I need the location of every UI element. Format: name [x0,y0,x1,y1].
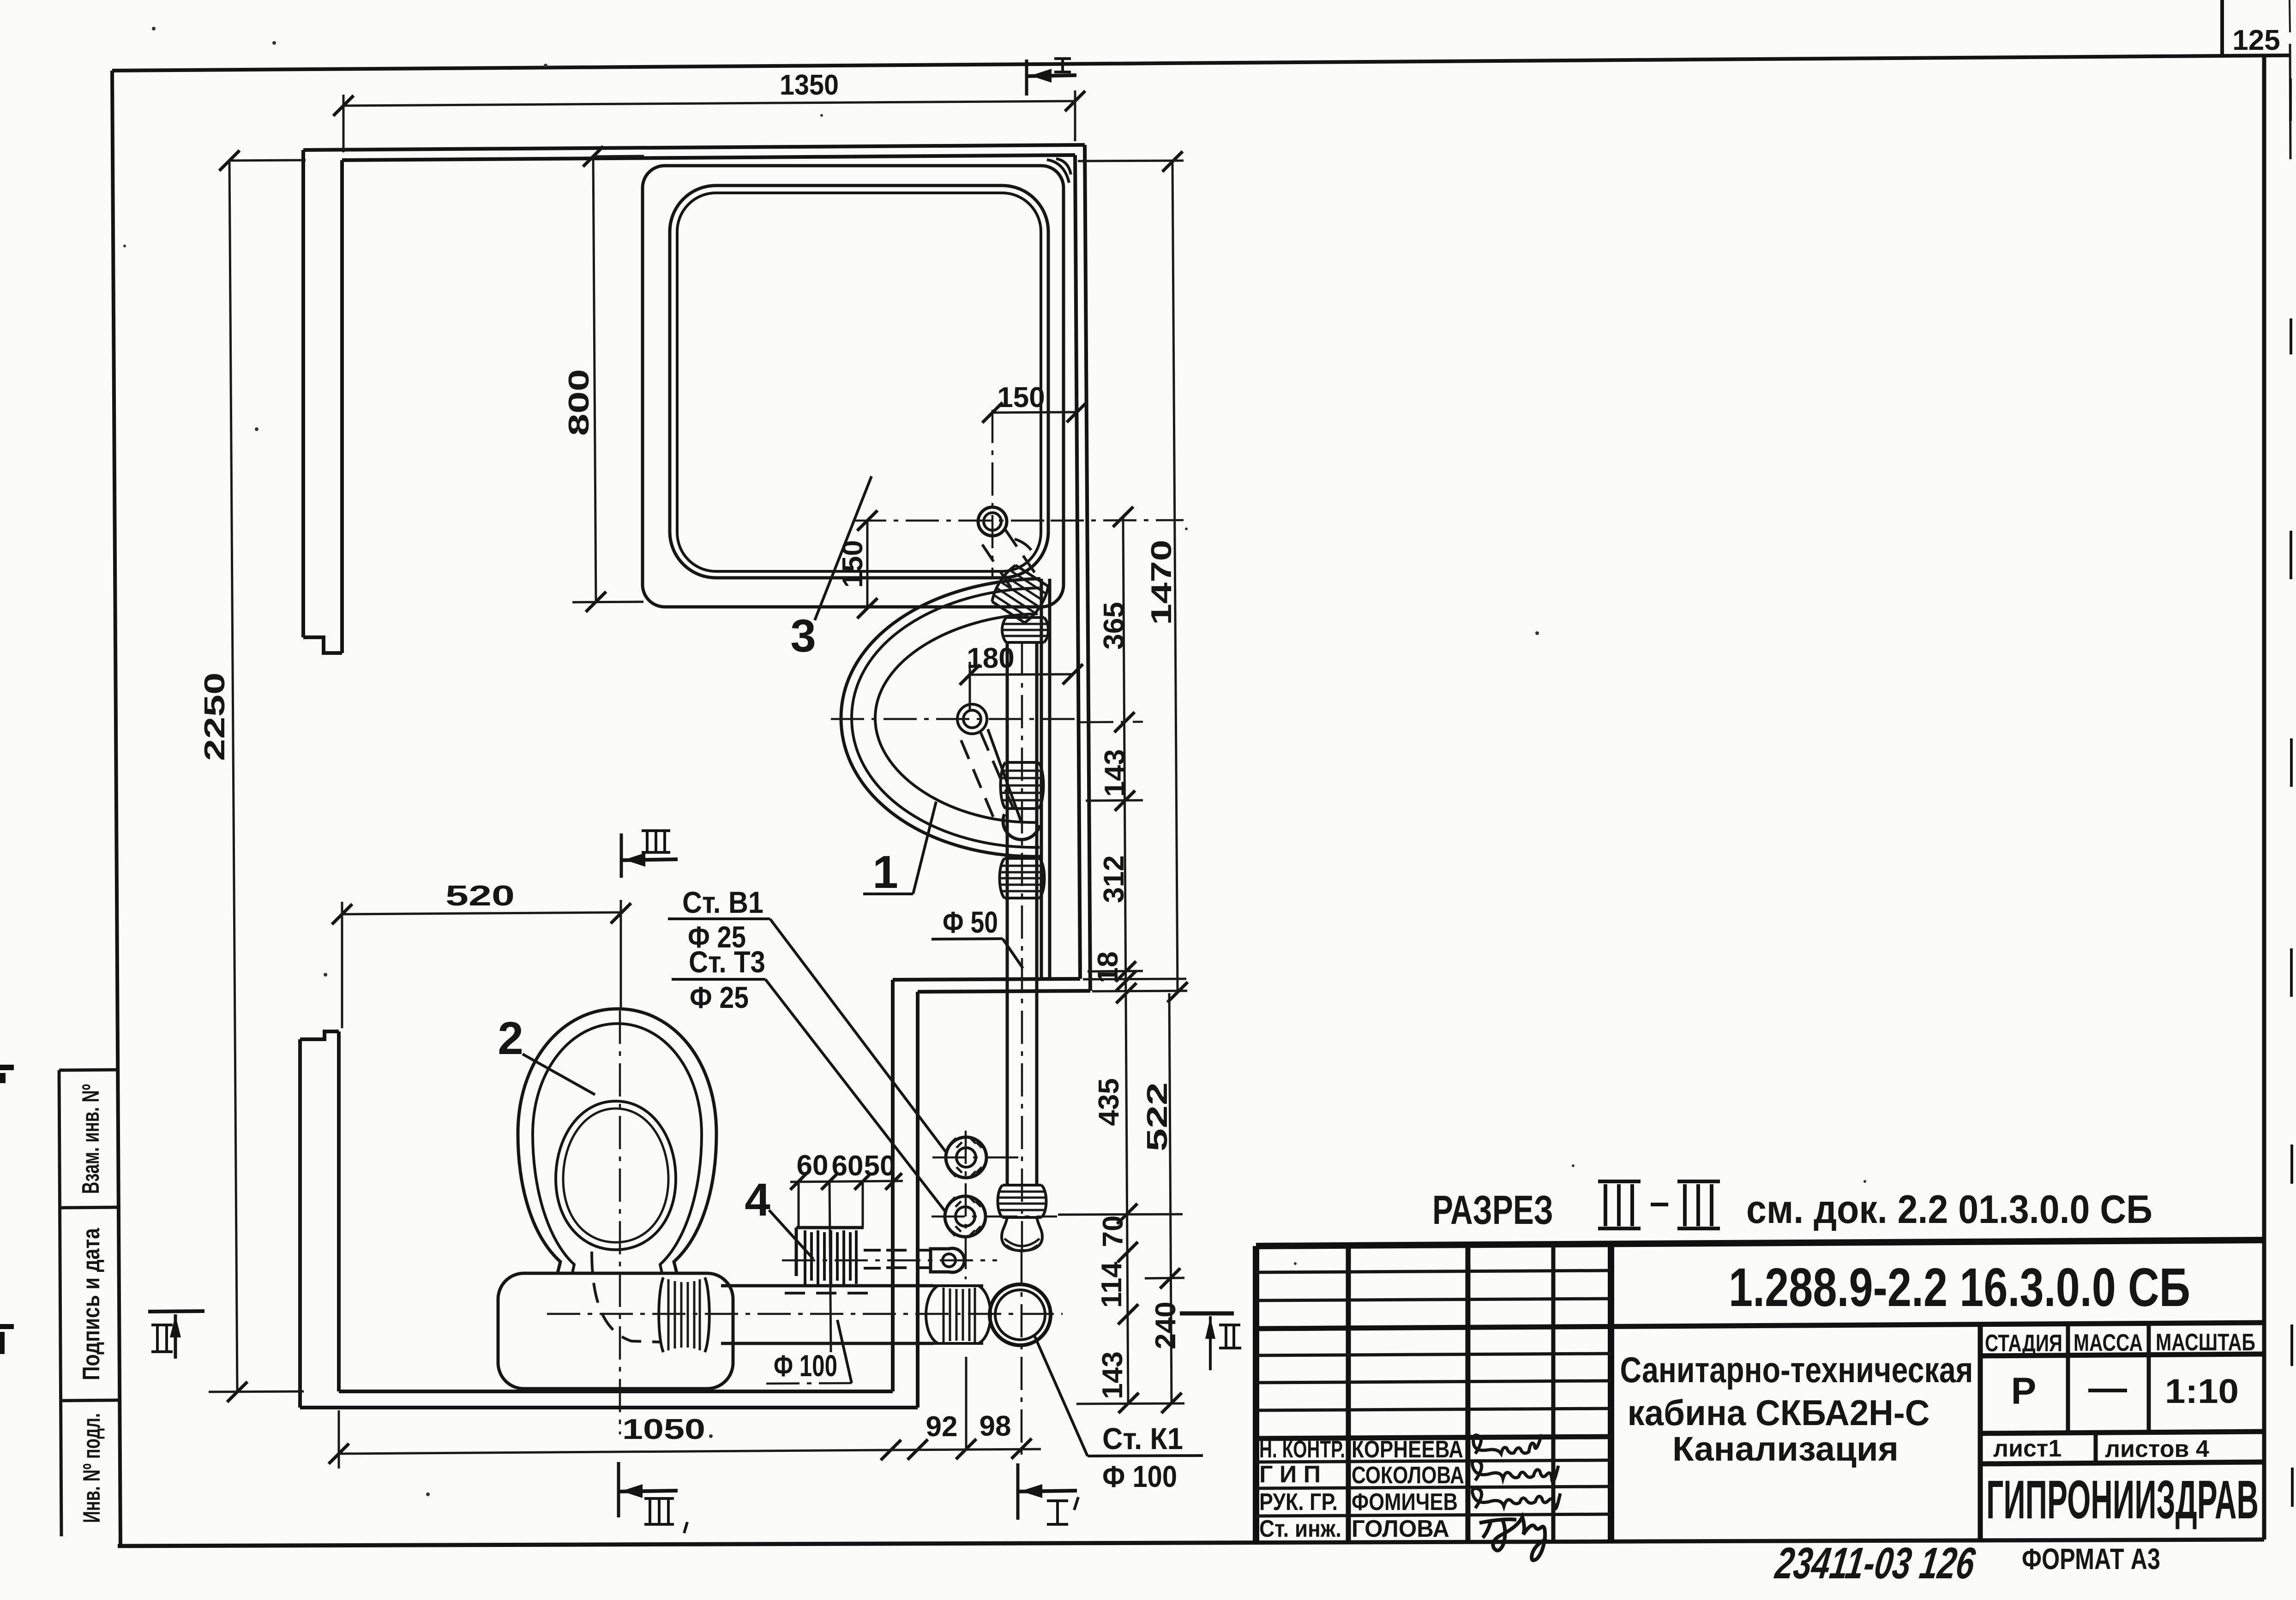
riser lower sleeve [997,1185,1047,1217]
svg-text:Канализация: Канализация [1672,1430,1899,1468]
toilet 2 outer contour with pedestal [518,1009,716,1273]
svg-text:Ф 25: Ф 25 [690,980,749,1014]
item label 4 [745,1174,813,1259]
toilet axis centerline [619,1011,621,1434]
svg-text:522: 522 [1142,1082,1173,1151]
right dimension chain [1051,507,1187,1413]
waste riser pipe [1007,642,1037,1185]
svg-text:Н. КОНТР.: Н. КОНТР. [1259,1436,1345,1463]
svg-text:50: 50 [864,1150,896,1182]
left wall panel upper [303,150,342,653]
svg-text:240: 240 [1150,1301,1182,1349]
drain centerlines [853,520,1049,522]
toilet inner contour [533,1024,702,1273]
svg-text:РУК. ГР.: РУК. ГР. [1259,1489,1338,1516]
dimension 1470 [1078,151,1188,1002]
hidden drain pipe diagonal [982,530,1040,592]
svg-text:Ст. Т3: Ст. Т3 [689,945,765,979]
svg-text:2: 2 [498,1013,523,1064]
svg-text:125: 125 [2232,24,2280,56]
svg-text:МАССА: МАССА [2074,1330,2143,1356]
svg-text:70: 70 [1097,1216,1129,1247]
svg-text:3: 3 [790,610,816,662]
dimension 92 98 [891,1357,1041,1460]
item label 2 [498,1013,595,1095]
riser outlet bell [1002,1217,1042,1251]
flush connection sleeve [659,1277,709,1352]
svg-text:4: 4 [745,1174,770,1226]
svg-text:СОКОЛОВА: СОКОЛОВА [1352,1462,1464,1489]
scan speckles [123,27,1866,1496]
cistern [498,1273,733,1389]
right wall lower room [893,980,918,1408]
floor outlet circle K1 [990,1284,1051,1345]
svg-text:1050: 1050 [622,1414,705,1445]
hidden flush elbow [592,1252,660,1342]
svg-text:ГИПРОНИИЗДРАВ: ГИПРОНИИЗДРАВ [1986,1469,2259,1530]
shower tray drain [978,507,1007,536]
shower tray 3 outer rim [643,166,1064,607]
svg-text:60: 60 [832,1150,864,1182]
svg-text:КОРНЕЕВА: КОРНЕЕВА [1352,1436,1463,1463]
dimension 1350 [333,69,1085,152]
outlet pipe centerline [547,1313,1063,1315]
dimension 522 240 [1142,993,1182,1413]
washbasin tap hole [957,704,987,734]
svg-text:92: 92 [926,1411,958,1443]
svg-text:Санитарно-техническая: Санитарно-техническая [1620,1349,1973,1390]
svg-text:Ст. инж.: Ст. инж. [1259,1516,1341,1542]
svg-text:150: 150 [837,540,869,587]
pipe socket bell at wall [926,1286,991,1343]
svg-text:435: 435 [1093,1078,1125,1126]
left wall panel lower [300,1031,339,1408]
dimension 150 vertical at drain [837,510,878,618]
washbasin 1 outer rim [841,579,1040,857]
step wall between rooms [893,979,1090,992]
dimension 800 [563,146,644,612]
svg-text:365: 365 [1098,602,1130,649]
svg-text:РАЗРЕЗ: РАЗРЕЗ [1432,1187,1553,1233]
dimension 60 60 50 [790,1150,903,1352]
toilet seat opening double [556,1101,676,1250]
svg-text:1350: 1350 [780,69,839,101]
svg-text:Г И П: Г И П [1259,1461,1321,1488]
section mark I' bottom [1018,1463,1078,1524]
dimension 150 horizontal at drain [982,382,1087,423]
radiator tap lug [782,1248,997,1272]
signatures [1473,1434,1542,1454]
svg-text:ФОМИЧЕВ: ФОМИЧЕВ [1352,1489,1458,1516]
svg-text:Р: Р [2011,1370,2037,1412]
svg-text:Ст. В1: Ст. В1 [682,885,763,919]
trap hook [1003,814,1040,839]
svg-text:МАСШТАБ: МАСШТАБ [2156,1329,2255,1356]
shower tray inner rim double line [670,186,1048,578]
walls: top wall of cabin [303,145,1085,160]
svg-text:114: 114 [1096,1261,1128,1308]
section mark III top [621,831,678,878]
paper edge right [2290,0,2292,1507]
svg-text:1470: 1470 [1146,540,1178,625]
svg-text:150: 150 [997,382,1045,413]
svg-text:Ф 100: Ф 100 [774,1348,837,1383]
sleeve at washbasin tee [1000,762,1044,809]
coupling sleeve on drain diagonal [989,563,1052,625]
svg-text:520: 520 [445,880,515,912]
svg-text:Ф 100: Ф 100 [1102,1459,1177,1493]
label f50 [932,905,1023,968]
svg-text:Взам. инв. Nº: Взам. инв. Nº [78,1084,104,1194]
svg-text:23411-03 126: 23411-03 126 [1772,1539,1978,1588]
sleeve below washbasin [999,858,1045,898]
svg-text:800: 800 [563,369,595,436]
outlet pipe from cistern [721,1286,933,1343]
svg-text:кабина СКБА2Н-С: кабина СКБА2Н-С [1628,1392,1930,1433]
hidden waste diagonal from basin [961,732,1017,826]
svg-text:180: 180 [967,642,1014,674]
svg-text:2250: 2250 [199,672,231,761]
left margin stamp column [59,1070,120,1536]
svg-text:98: 98 [980,1410,1011,1442]
section mark III bottom [619,1462,687,1533]
label f100 [766,1320,852,1384]
section mark II left [148,1311,204,1359]
svg-text:Инв. Nº подл.: Инв. Nº подл. [78,1413,105,1523]
svg-text:ФОРМАТ А3: ФОРМАТ А3 [2022,1542,2160,1576]
svg-text:СТАДИЯ: СТАДИЯ [1985,1330,2062,1357]
svg-text:Ст. К1: Ст. К1 [1102,1421,1183,1456]
corner fillet top right [1047,160,1069,183]
heating riser flange St.T3 [932,1131,1057,1279]
svg-text:143: 143 [1097,1351,1129,1399]
bottom wall [300,1391,918,1408]
svg-text:18: 18 [1092,952,1124,983]
page number box 125 top right [2222,0,2280,56]
label St.V1 f25 St.T3 f25 [668,885,947,1213]
dimension 180 at basin tap [960,642,1083,711]
item label 1 [863,802,936,898]
svg-text:ГОЛОВА: ГОЛОВА [1352,1516,1449,1542]
dimension 1050 [329,1410,901,1468]
pipe channel wall [1041,579,1050,979]
svg-text:1.288.9-2.2 16.3.0.0 СБ: 1.288.9-2.2 16.3.0.0 СБ [1729,1257,2190,1318]
svg-text:Ф 50: Ф 50 [943,905,998,939]
svg-text:1:10: 1:10 [2165,1372,2239,1410]
radiator 4 [796,1228,931,1288]
svg-text:312: 312 [1098,855,1130,903]
section mark II right [1180,1313,1241,1370]
svg-text:Подпись и дата: Подпись и дата [78,1228,105,1380]
section mark I top [1027,59,1076,96]
svg-text:1: 1 [872,846,898,898]
svg-text:см. док. 2.2 01.3.0.0 СБ: см. док. 2.2 01.3.0.0 СБ [1746,1187,2152,1232]
svg-text:60: 60 [797,1150,829,1181]
svg-text:листов 4: листов 4 [2105,1436,2209,1462]
label St.K1 f100 [1034,1335,1203,1493]
washbasin bowl [875,614,1038,822]
coupling sleeve riser top [1002,617,1048,642]
item label 3 [790,476,872,662]
scan artifacts left edge [0,1065,14,1354]
title block table [1256,1240,2264,1544]
water riser flange St.V1 [932,1137,1023,1178]
dimension 2250 [199,150,306,1402]
right wall upper room [1075,145,1090,991]
svg-text:143: 143 [1099,749,1131,797]
svg-text:лист1: лист1 [1993,1435,2062,1462]
dimension 520 [332,880,631,1028]
